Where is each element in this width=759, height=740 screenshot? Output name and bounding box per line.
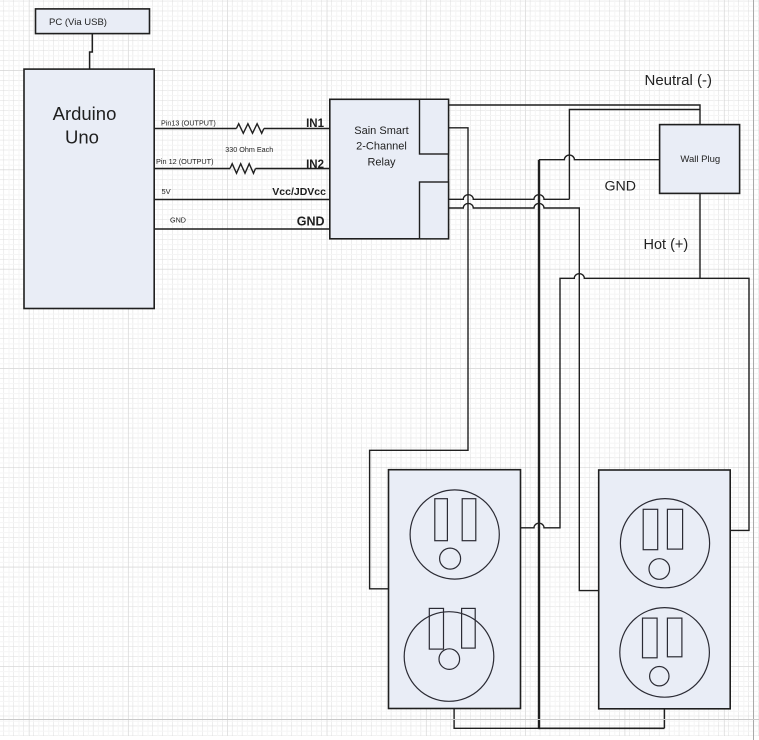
- wire: GND riser into outlet 2 bottom: [663, 709, 665, 729]
- svg-text:IN1: IN1: [306, 118, 325, 130]
- svg-text:PC (Via USB): PC (Via USB): [49, 17, 107, 28]
- svg-text:Pin13 (OUTPUT): Pin13 (OUTPUT): [161, 119, 216, 128]
- page edge vertical: [753, 0, 755, 740]
- wire: GND from Wall Plug left (with hop): [539, 155, 660, 160]
- svg-text:Relay: Relay: [367, 156, 396, 168]
- page edge horizontal: [0, 719, 759, 721]
- outlet 2 lower receptacle: [620, 608, 710, 698]
- wire: GND bottom run: [539, 727, 664, 729]
- wire: Pin 12 to IN2 (with resistor R2): [154, 168, 230, 170]
- relay terminal block (top): [420, 99, 449, 154]
- svg-text:Pin 12 (OUTPUT): Pin 12 (OUTPUT): [156, 157, 214, 166]
- wire: Pin13 to IN1 (with resistor R1): [154, 128, 236, 130]
- svg-text:330 Ohm Each: 330 Ohm Each: [225, 145, 273, 154]
- wire: USB link from PC to Arduino: [90, 34, 93, 70]
- wire: relay lower bus to outlet 2 left, with hops: [449, 203, 599, 590]
- svg-text:GND: GND: [605, 179, 637, 195]
- svg-text:Sain Smart: Sain Smart: [354, 125, 408, 137]
- wire: Hot from Wall Plug bottom: [699, 193, 701, 278]
- svg-text:GND: GND: [297, 214, 325, 228]
- outlet 2 (duplex receptacle) box: [599, 470, 731, 709]
- resistor R2 330 Ohm: [230, 164, 256, 174]
- wire: relay upper bus (to plug link) with hops: [449, 195, 570, 200]
- outlet 1 (duplex receptacle) box: [389, 470, 521, 709]
- wire: GND Arduino to relay GND: [154, 228, 330, 230]
- wire: outlet1 right to hot loop (hop over GND trunk), up and over to outlet 2 right: [521, 274, 750, 531]
- outlet 1 upper receptacle: [410, 490, 499, 579]
- svg-text:GND: GND: [170, 216, 186, 225]
- Arduino Uno box: [24, 69, 154, 308]
- svg-text:Uno: Uno: [65, 126, 99, 147]
- svg-text:Arduino: Arduino: [53, 103, 117, 124]
- wire: outlet 1 ground stub to GND trunk: [454, 709, 539, 729]
- wire: GND trunk vertical (thick): [538, 160, 540, 729]
- wire: 5V to Vcc/JDVcc: [154, 199, 330, 201]
- svg-text:Hot (+): Hot (+): [644, 237, 689, 253]
- svg-text:Neutral (-): Neutral (-): [645, 72, 713, 89]
- PC (Via USB) box: [36, 9, 150, 34]
- resistor R1 330 Ohm: [236, 124, 264, 134]
- relay U1: Sain Smart 2-Channel Relay box: [330, 99, 449, 239]
- svg-text:Vcc/JDVcc: Vcc/JDVcc: [272, 186, 326, 198]
- svg-text:IN2: IN2: [306, 159, 324, 171]
- outlet 2 upper receptacle: [620, 499, 709, 588]
- wire: Neutral from relay to Wall Plug: [449, 105, 701, 125]
- svg-text:2-Channel: 2-Channel: [356, 141, 407, 153]
- Wall Plug box: [660, 125, 740, 194]
- wire: relay ch1 output to outlet 1: [370, 128, 468, 589]
- relay terminal block (bottom): [420, 182, 449, 239]
- wire: relay bus to plug-top link: [569, 110, 700, 200]
- svg-text:5V: 5V: [162, 187, 171, 196]
- svg-text:Wall Plug: Wall Plug: [680, 154, 720, 165]
- outlet 1 lower receptacle: [404, 608, 494, 701]
